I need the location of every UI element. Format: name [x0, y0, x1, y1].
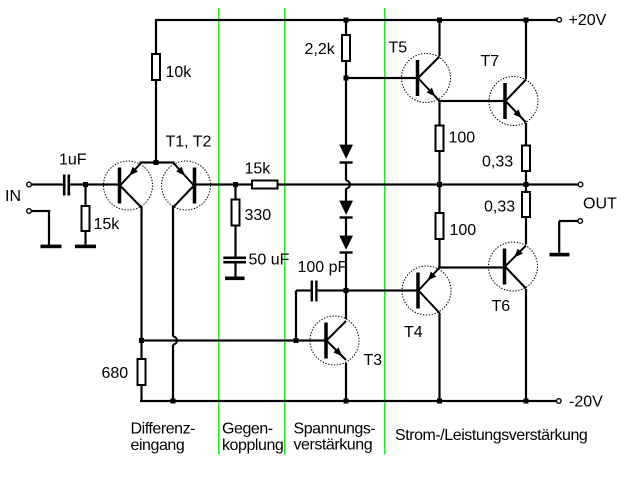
- svg-text:15k: 15k: [245, 161, 272, 178]
- wire 0,33 bottom to T6 emitter: [525, 217, 527, 245]
- svg-text:kopplung: kopplung: [222, 437, 283, 454]
- wire D2 to D3: [345, 219, 347, 237]
- svg-text:eingang: eingang: [131, 437, 185, 454]
- label OUT: [583, 196, 617, 213]
- wire T5 emitter down: [438, 101, 440, 126]
- wire 680 top lead: [140, 341, 142, 360]
- node T7 collector at rail: [524, 18, 529, 23]
- label section Differenzeingang: [131, 421, 196, 455]
- label 50 uF: [249, 252, 290, 269]
- wire diode chain top: [345, 78, 347, 145]
- svg-text:100: 100: [450, 222, 477, 239]
- node T1 collector junction: [139, 338, 144, 343]
- wire T3 emitter down: [345, 363, 347, 401]
- node T4 collector at rail: [437, 399, 442, 404]
- svg-text:+20V: +20V: [569, 12, 607, 29]
- diode D3: [339, 236, 353, 254]
- wire 100 bottom to T4 emitter: [438, 239, 440, 268]
- svg-text:Strom-/Leistungsverstärkung: Strom-/Leistungsverstärkung: [395, 427, 587, 444]
- wire hop over output line: [346, 181, 350, 189]
- resistor R 0,33 bottom: [522, 192, 530, 217]
- wire T2 collector down (hop over T3 base wire): [172, 207, 177, 402]
- wire output line: [278, 183, 579, 185]
- label 0,33 bottom: [484, 199, 515, 216]
- wire OUT ground: [558, 220, 578, 253]
- node T6 collector at rail: [524, 399, 529, 404]
- node T3 collector junction: [344, 288, 349, 293]
- label IN: [5, 188, 21, 205]
- svg-text:IN: IN: [5, 188, 21, 205]
- diode D1: [339, 145, 353, 164]
- transistor T6: [489, 242, 538, 291]
- wire 330 top lead: [234, 185, 236, 200]
- wire 50uF to ground: [234, 264, 236, 277]
- transistor T2: [162, 161, 211, 210]
- wire IN bottom to ground: [31, 210, 50, 245]
- svg-text:330: 330: [245, 207, 272, 224]
- wire T4 base from node: [346, 289, 417, 291]
- svg-text:OUT: OUT: [583, 196, 617, 213]
- wire T5 collector up: [438, 20, 440, 56]
- node input junction: [83, 182, 88, 187]
- svg-text:Spannungs-: Spannungs-: [294, 421, 376, 438]
- ground IN: [41, 245, 62, 249]
- wire output to 100 bottom: [438, 185, 440, 214]
- node T2 base junction: [233, 182, 238, 187]
- terminal +20V: [557, 17, 562, 22]
- wire 100pF right to node: [318, 289, 346, 291]
- label T3: [364, 352, 383, 369]
- svg-text:-20V: -20V: [569, 394, 603, 411]
- label T5: [389, 40, 408, 57]
- node output junction C: [524, 182, 529, 187]
- resistor R 10k: [152, 54, 160, 80]
- transistor T1: [104, 161, 153, 210]
- svg-text:10k: 10k: [166, 64, 193, 81]
- ground OUT: [550, 253, 570, 257]
- wire output to 0,33 bottom: [525, 185, 527, 193]
- resistor R 0,33 top: [522, 146, 530, 172]
- svg-text:T7: T7: [481, 53, 500, 70]
- wire 330 to C 50uF: [234, 226, 236, 257]
- svg-text:50 uF: 50 uF: [249, 252, 290, 269]
- wire node to R15k: [236, 183, 253, 185]
- wire 680 bottom lead: [140, 385, 142, 401]
- transistor T5: [402, 54, 451, 103]
- ground 50uF: [225, 277, 245, 281]
- svg-text:T6: T6: [492, 298, 511, 315]
- transistor T3: [310, 316, 359, 365]
- wire T5 emitter to T7 base: [438, 100, 504, 102]
- svg-text:15k: 15k: [94, 216, 121, 233]
- terminal OUT ground: [578, 219, 583, 224]
- wire D3 to T3 collector node: [345, 254, 347, 291]
- label T6: [492, 298, 511, 315]
- node 2.2k top: [344, 18, 349, 23]
- label 100 top: [449, 130, 476, 147]
- label 680: [102, 365, 129, 382]
- svg-text:T3: T3: [364, 352, 383, 369]
- node emitter junction: [154, 160, 159, 165]
- resistor R 2.2k: [342, 35, 350, 61]
- wire T4 collector down: [438, 313, 440, 401]
- node output junction B: [437, 182, 442, 187]
- node T5 base junction: [344, 76, 349, 81]
- section separator line 1: [218, 8, 219, 455]
- section separator line 2: [284, 8, 285, 455]
- label T1, T2: [166, 134, 212, 151]
- wire 10k top lead: [155, 20, 157, 54]
- wire -20V bottom rail: [140, 400, 556, 402]
- diode D2: [339, 201, 353, 219]
- label section Gegenkopplung: [222, 421, 283, 455]
- node T2 collector at rail: [171, 399, 176, 404]
- svg-text:T5: T5: [389, 40, 408, 57]
- label T4: [404, 324, 423, 341]
- wire 100pF left leg: [295, 289, 311, 340]
- svg-text:verstärkung: verstärkung: [294, 437, 373, 454]
- ground 15k: [75, 245, 96, 249]
- wire hop to D2: [345, 189, 347, 202]
- wire T6 collector down: [525, 289, 527, 401]
- label 0,33 top: [482, 154, 513, 171]
- wire 0,33 top to output: [525, 171, 527, 185]
- wire 10k to emitters: [155, 80, 157, 163]
- wire T2 base to node: [195, 183, 236, 185]
- transistor T7: [489, 77, 538, 126]
- wire T7 emitter down: [525, 123, 527, 146]
- capacitor C1 1uF: [63, 175, 70, 196]
- resistor R 100 top: [436, 126, 444, 152]
- wire 2.2k to base node: [345, 61, 347, 78]
- wire IN to C1: [31, 183, 63, 185]
- resistor R 100 bottom: [436, 213, 444, 239]
- terminal OUT: [578, 182, 583, 187]
- transistor T4: [402, 266, 451, 315]
- capacitor C 50uF: [223, 257, 246, 264]
- svg-text:T1, T2: T1, T2: [166, 134, 212, 151]
- svg-text:Differenz-: Differenz-: [131, 421, 196, 438]
- label 15k input: [94, 216, 121, 233]
- label +20V: [569, 12, 607, 29]
- label 2,2k: [305, 41, 336, 58]
- label 100 bottom: [450, 222, 477, 239]
- resistor R 15k feedback: [252, 181, 278, 189]
- label 1uF: [59, 152, 87, 169]
- wire C1 to T1 base: [70, 183, 118, 185]
- wire base node to T5: [346, 77, 417, 79]
- label -20V: [569, 394, 603, 411]
- wire T4 emitter to T6 base: [438, 266, 504, 268]
- resistor R 15k input: [82, 206, 90, 231]
- svg-text:1uF: 1uF: [59, 152, 87, 169]
- svg-text:0,33: 0,33: [482, 154, 513, 171]
- svg-text:Gegen-: Gegen-: [222, 421, 273, 438]
- svg-text:680: 680: [102, 365, 129, 382]
- terminal IN top: [27, 182, 32, 187]
- wire 2.2k top lead: [345, 20, 347, 35]
- label 100 pF: [298, 259, 348, 276]
- capacitor C 100pF: [311, 281, 318, 302]
- wire T3 base from left: [142, 339, 327, 341]
- wire D1 to hop: [345, 162, 347, 180]
- label 10k: [166, 64, 193, 81]
- svg-text:100 pF: 100 pF: [298, 259, 348, 276]
- wire T3 collector up: [345, 291, 347, 320]
- terminal -20V: [557, 399, 562, 404]
- resistor R 15k input leads: [84, 185, 86, 245]
- wire +20V top rail: [155, 19, 557, 21]
- wire emitter bus: [140, 161, 175, 163]
- section separator line 3: [384, 8, 385, 455]
- wire 100 top to output: [438, 151, 440, 185]
- resistor R 680: [138, 359, 146, 385]
- terminal IN bottom: [27, 209, 32, 214]
- label section Spannungsverstaerkung: [294, 421, 376, 454]
- node 100pF to T3 base: [294, 338, 299, 343]
- label 15k feedback: [245, 161, 272, 178]
- svg-text:T4: T4: [404, 324, 423, 341]
- node T3 emitter at rail: [344, 399, 349, 404]
- label section Strom-/Leistungsverstaerkung: [395, 427, 587, 444]
- wire T7 collector up: [525, 20, 527, 79]
- label T7: [481, 53, 500, 70]
- svg-text:100: 100: [449, 130, 476, 147]
- wire T1 collector down: [140, 207, 142, 341]
- svg-text:0,33: 0,33: [484, 199, 515, 216]
- svg-text:2,2k: 2,2k: [305, 41, 336, 58]
- resistor R 330: [232, 200, 240, 226]
- label 330: [245, 207, 272, 224]
- node T5 collector at rail: [437, 18, 442, 23]
